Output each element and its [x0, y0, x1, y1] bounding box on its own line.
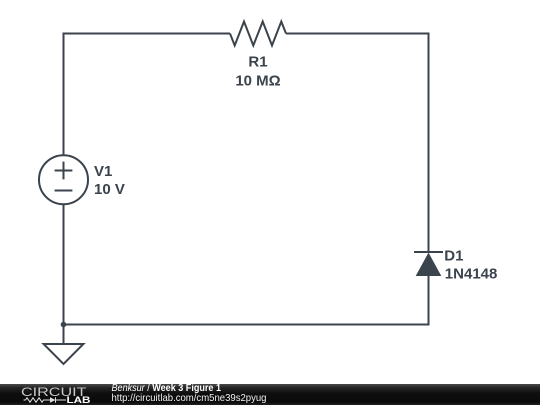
- svg-text:R1: R1: [248, 53, 267, 70]
- wire: left vertical upper segment: [63, 33, 65, 156]
- CircuitLab logo: resistor-diode symbol: [24, 397, 67, 402]
- wire: top-left horizontal segment: [64, 33, 231, 35]
- diode D1 triangle (anode): [416, 253, 442, 276]
- diode D1 cathode bar: [414, 251, 443, 253]
- footer watermark bar: [0, 384, 540, 405]
- junction node (filled dot): [61, 322, 67, 328]
- voltage source V1 (circle): [39, 155, 88, 204]
- wire: right vertical upper segment: [428, 33, 430, 253]
- wire: bottom horizontal segment: [63, 324, 429, 326]
- V1 plus sign: [55, 162, 73, 180]
- svg-text:10 MΩ: 10 MΩ: [235, 72, 280, 89]
- ground stub wire: [63, 325, 65, 345]
- wire: right vertical lower segment: [428, 275, 430, 326]
- svg-text:LAB: LAB: [67, 395, 91, 405]
- wire: left vertical lower segment: [63, 204, 65, 324]
- ground symbol (triangle): [44, 344, 84, 364]
- resistor R1 (zigzag body): [230, 22, 286, 46]
- svg-text:http://circuitlab.com/cm5ne39s: http://circuitlab.com/cm5ne39s2pyug: [112, 392, 267, 404]
- svg-text:D1: D1: [444, 248, 463, 265]
- svg-text:V1: V1: [94, 163, 112, 180]
- V1 minus sign: [55, 190, 73, 192]
- wire: top-right horizontal segment: [286, 33, 429, 35]
- svg-text:10 V: 10 V: [94, 181, 125, 198]
- svg-text:1N4148: 1N4148: [445, 266, 498, 283]
